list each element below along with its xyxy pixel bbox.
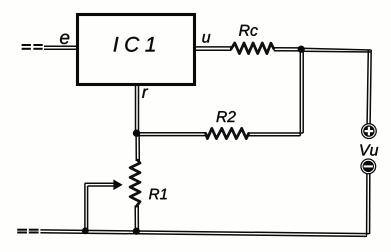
node r label [142, 89, 148, 98]
wire node B to R1 top [136, 133, 139, 161]
resistor Rc [231, 43, 273, 54]
node B junction dot [133, 130, 140, 137]
continuation marks (bottom left) [17, 230, 38, 233]
resistor R2 value label [216, 111, 235, 122]
terminal - (negative output) [361, 159, 376, 174]
wiper arrow horizontal (double line) [85, 183, 115, 186]
node e label [60, 34, 69, 44]
wire node r (IC1 bottom pin) [136, 86, 139, 133]
junction dot (R1 bottom on bottom wire) [133, 228, 140, 235]
wire R2 left lead to node B [137, 133, 206, 136]
wire Rc to node A [274, 48, 301, 51]
continuation marks (input, top left) [22, 45, 43, 49]
wire node A drop to R2 [300, 50, 303, 136]
node u label [202, 34, 210, 43]
wire right rail lower [367, 174, 370, 236]
wire u output (double line) [196, 47, 232, 50]
wire R1 bottom lead [135, 206, 138, 231]
wire e input (double line) [44, 46, 77, 49]
resistor Rc value label [239, 25, 258, 36]
resistor R1 (vertical) [130, 160, 140, 206]
output voltage Vu label [360, 144, 378, 155]
IC1 value label [114, 37, 155, 52]
op-amp block IC1 [78, 15, 195, 85]
resistor R1 value label [149, 189, 167, 199]
bottom wire (double line) [40, 230, 369, 237]
terminal + (positive output) [362, 124, 377, 139]
wiper arrowhead [114, 180, 123, 190]
junction dot (wiper on bottom wire) [82, 228, 88, 234]
resistor R2 [206, 128, 249, 138]
wire right rail upper [367, 50, 371, 124]
wiper arrow wire (vertical from bottom wire) [85, 183, 88, 230]
node A junction dot [298, 46, 305, 53]
wire R2 right lead [248, 133, 303, 136]
wire node A to top right corner [301, 48, 371, 52]
